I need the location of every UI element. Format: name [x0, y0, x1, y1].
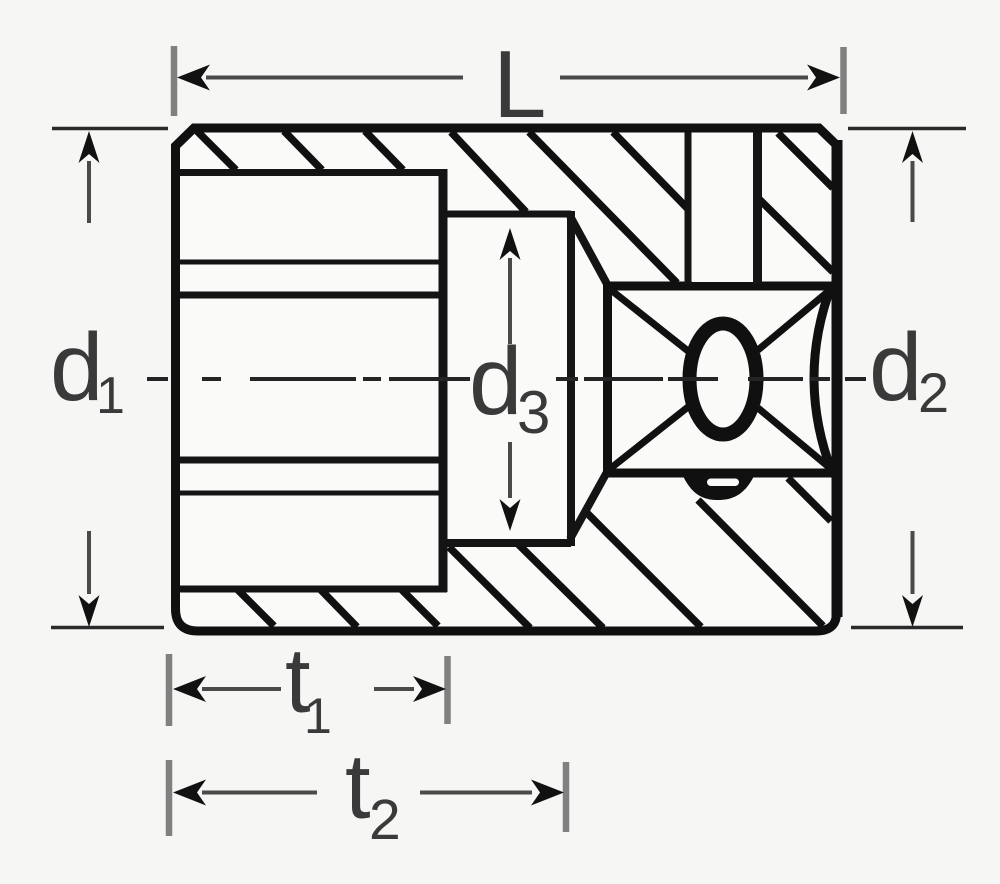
svg-text:2: 2 — [369, 788, 401, 852]
svg-text:d: d — [469, 328, 522, 435]
svg-text:3: 3 — [517, 379, 550, 446]
svg-text:1: 1 — [96, 367, 125, 425]
svg-text:1: 1 — [304, 688, 332, 744]
svg-text:L: L — [493, 31, 546, 138]
svg-text:t: t — [345, 736, 371, 838]
svg-text:2: 2 — [918, 361, 949, 424]
svg-text:d: d — [869, 314, 922, 421]
